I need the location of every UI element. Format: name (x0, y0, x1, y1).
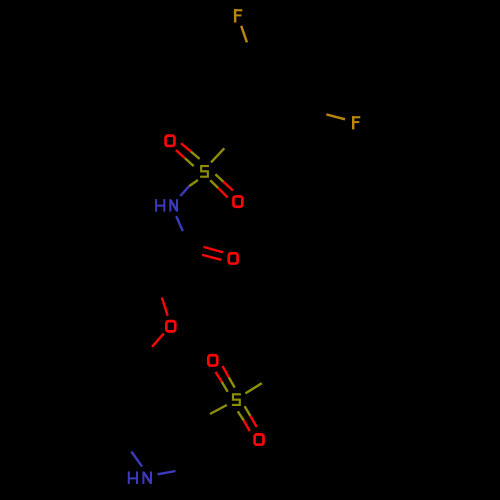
atom O3 (amide carbonyl oxygen) (229, 253, 238, 263)
bond S1-N1 sulfur half (189, 180, 198, 186)
bond S2=O5 line A sulfur half (229, 377, 235, 387)
bond S1=O1 line A sulfur half (191, 152, 200, 159)
atom N2 (pyrrolidine HN label) (129, 471, 151, 484)
bond S2=O5 line B oxygen half (216, 372, 222, 382)
bond S1=O2 line B sulfur half (210, 180, 218, 188)
bond O4-C9 oxygen half (152, 333, 164, 346)
bond S1=O2 line A sulfur half (215, 174, 223, 182)
atom S2 (methylsulfonyl sulfur) (232, 394, 241, 405)
bond S1=O1 line B sulfur half (185, 158, 194, 166)
atom F2 (fluorine, right) (352, 116, 360, 129)
atom O4 (ether oxygen) (166, 321, 175, 331)
bond S1-C1 ring (sulfur half) (211, 148, 224, 162)
bond S1=O1 line B oxygen half (176, 150, 185, 158)
bond S2=O5 line B sulfur half (222, 382, 228, 392)
atom O5 (methylsulfonyl oxygen upper) (208, 355, 217, 365)
bond C7=O3 line B oxygen half (202, 255, 221, 260)
bond S2=O6 line B sulfur half (238, 411, 244, 420)
atom O6 (methylsulfonyl oxygen lower) (255, 434, 264, 444)
bond N1-C7 nitrogen half (176, 216, 183, 231)
atom O2 (sulfonyl oxygen lower-right) (233, 196, 242, 206)
bond S2=O6 line B oxygen half (244, 420, 250, 431)
bond S2=O6 line A sulfur half (245, 406, 251, 416)
bond S2=O6 line A oxygen half (250, 416, 256, 427)
atom O1 (sulfonyl oxygen upper-left) (166, 136, 175, 146)
bond N2-C13 nitrogen half (158, 471, 176, 474)
bond C5-F1 (fluorine half) (241, 26, 247, 43)
bond C12-N2 nitrogen half (131, 452, 142, 467)
bond S2-C11 ring (sulfur half) (210, 405, 227, 414)
atom F1 (fluorine, top) (234, 9, 242, 23)
bond S1-N1 nitrogen half (180, 186, 189, 196)
bond S2-C10 methyl (sulfur half) (245, 383, 261, 393)
atom N1 (sulfonamide HN label) (156, 199, 177, 212)
bond S1=O1 line A oxygen half (181, 143, 191, 151)
atom S1 (sulfonamide sulfur) (200, 166, 209, 177)
bond S1=O2 line B oxygen half (218, 188, 228, 198)
bond C7=O3 line A oxygen half (204, 247, 224, 253)
bond C3-F2 (fluorine half) (326, 114, 345, 119)
bond S1=O2 line A oxygen half (223, 182, 233, 191)
bond C8-O4 oxygen half (162, 298, 168, 316)
bond S2=O5 line A oxygen half (223, 366, 229, 377)
